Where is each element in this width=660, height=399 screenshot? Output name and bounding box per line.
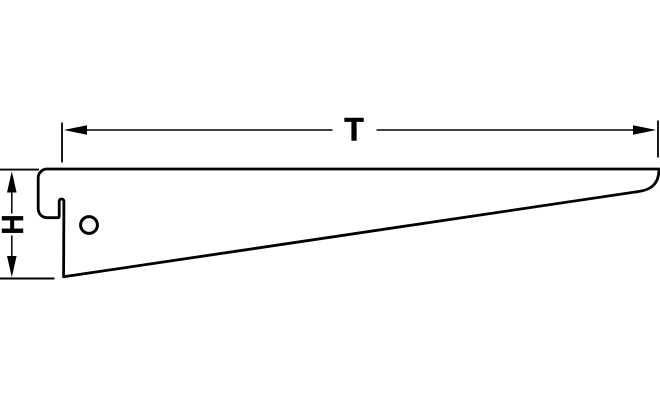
- svg-text:H: H: [0, 215, 30, 235]
- T dimension right arrowhead: [633, 125, 656, 135]
- T dimension: right extension line: [657, 121, 659, 158]
- H dimension: bottom extension line: [0, 278, 55, 280]
- H dimension line lower segment: [11, 236, 13, 259]
- bracket outline (side view of shelf bracket with rear hook): [38, 169, 659, 277]
- H dimension: top extension line: [0, 169, 39, 171]
- T dimension left arrowhead: [64, 125, 87, 135]
- H dimension line upper segment: [11, 190, 13, 214]
- T dimension line right segment: [377, 129, 641, 131]
- H dimension up arrowhead: [7, 171, 17, 192]
- T dimension line left segment: [80, 129, 333, 131]
- T dimension: left extension line: [61, 123, 63, 163]
- svg-text:T: T: [344, 112, 364, 148]
- H dimension down arrowhead: [7, 256, 17, 277]
- mounting hole: [81, 217, 98, 234]
